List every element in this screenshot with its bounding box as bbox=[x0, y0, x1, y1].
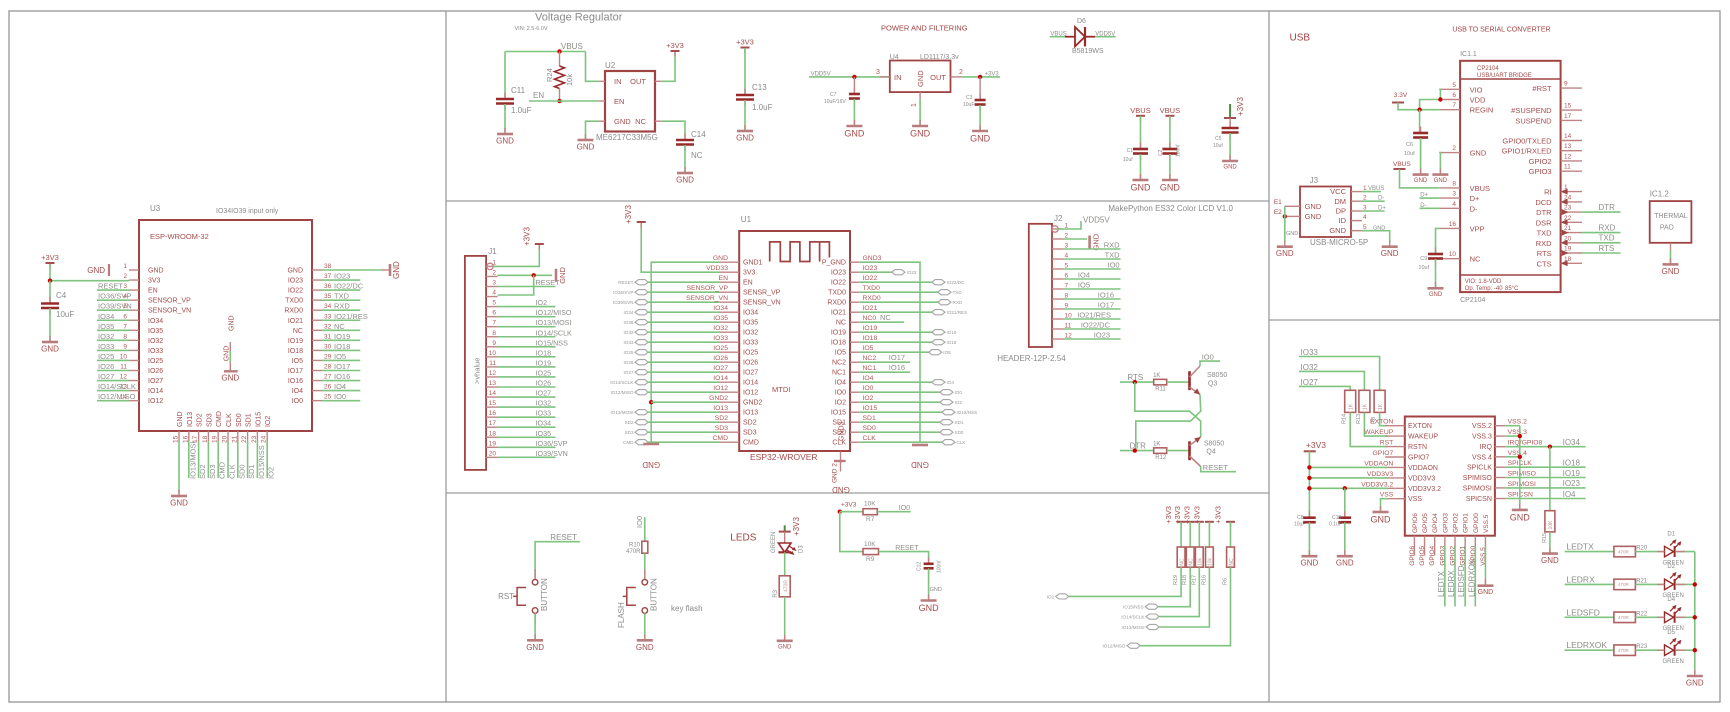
section divider right column bbox=[1268, 11, 1270, 702]
svg-text:SD1: SD1 bbox=[246, 413, 253, 427]
svg-text:C11: C11 bbox=[511, 86, 526, 95]
U3 pin 12 IO27 bbox=[129, 380, 139, 382]
svg-text:LEDSFD: LEDSFD bbox=[1566, 607, 1600, 617]
svg-text:27: 27 bbox=[324, 374, 332, 381]
svg-text:CMD: CMD bbox=[713, 435, 729, 442]
supply +3V3 at J1 bbox=[538, 244, 540, 250]
svg-text:D4: D4 bbox=[1667, 597, 1675, 603]
svg-text:DSR: DSR bbox=[1536, 218, 1552, 227]
svg-text:IO13/MOSI: IO13/MOSI bbox=[611, 410, 634, 415]
J3 pin E1 bbox=[1285, 205, 1300, 207]
wire LEDTX bbox=[1565, 551, 1614, 553]
wire D4 cathode bbox=[1676, 616, 1695, 618]
supply +3V3 bbox=[49, 263, 51, 269]
junction REGIN bbox=[1417, 108, 1421, 112]
supply +3V3 at R6 bbox=[1230, 522, 1232, 528]
svg-text:9: 9 bbox=[123, 343, 127, 350]
wire R17 to IO14/SCLK bbox=[1159, 567, 1199, 616]
wire D+ to pin 3 bbox=[1420, 197, 1440, 199]
wire VDD5V to U4 IN bbox=[809, 76, 890, 78]
svg-text:IO5: IO5 bbox=[835, 350, 846, 357]
U1 pin GND1 bbox=[720, 261, 739, 263]
wire net IO36/SVP bbox=[97, 299, 129, 301]
ground C7 bbox=[853, 120, 855, 126]
J1 pin 7 bbox=[486, 326, 498, 328]
ground U4 bbox=[919, 120, 921, 126]
svg-text:IO0: IO0 bbox=[1108, 261, 1120, 270]
wire net IO13/MOSI bbox=[188, 441, 190, 478]
IC1.1 pin 6 VDD bbox=[1439, 99, 1460, 101]
svg-text:16: 16 bbox=[489, 410, 497, 417]
ground led bus bbox=[1694, 670, 1696, 676]
net flag IO5 (U1 right) bbox=[929, 350, 942, 355]
wire IO5 at J2 bbox=[1063, 288, 1121, 290]
svg-text:FLASH: FLASH bbox=[617, 602, 626, 628]
svg-text:IRQ/GPIO8: IRQ/GPIO8 bbox=[1508, 440, 1543, 447]
svg-text:C7: C7 bbox=[830, 92, 837, 98]
svg-text:GND: GND bbox=[910, 129, 931, 139]
svg-text:10: 10 bbox=[489, 350, 497, 357]
svg-text:GND: GND bbox=[1470, 149, 1487, 158]
svg-text:Q4: Q4 bbox=[1206, 449, 1215, 456]
wire net IO2 bbox=[266, 441, 268, 478]
svg-text:GND: GND bbox=[1160, 183, 1181, 193]
svg-text:GND: GND bbox=[916, 70, 925, 87]
svg-text:1.0uF: 1.0uF bbox=[511, 106, 532, 115]
svg-text:VDDAON: VDDAON bbox=[1408, 465, 1438, 472]
svg-text:IO22: IO22 bbox=[288, 288, 303, 295]
U3 pin38 gnd wire bbox=[322, 269, 382, 271]
svg-text:NC: NC bbox=[1179, 558, 1185, 566]
svg-text:GND 2: GND 2 bbox=[831, 463, 838, 483]
svg-text:R9: R9 bbox=[866, 556, 875, 563]
svg-text:GND: GND bbox=[526, 643, 544, 652]
resistor bbox=[1359, 390, 1370, 412]
wire IO14/SCLK to U1 bbox=[648, 381, 720, 383]
svg-text:10uF: 10uF bbox=[963, 102, 974, 108]
svg-text:SD2: SD2 bbox=[197, 413, 204, 427]
wire IO27 to U1 bbox=[648, 371, 720, 373]
wire NC1/IO16 bbox=[859, 371, 910, 373]
wire net IO18 bbox=[322, 349, 360, 351]
svg-text:GND2: GND2 bbox=[743, 400, 763, 407]
svg-text:IO12/MISO: IO12/MISO bbox=[611, 390, 634, 395]
wire U2 NC to C14 bbox=[661, 121, 685, 139]
transistor Q4 S8050 bbox=[1188, 441, 1191, 460]
wire IO5 bbox=[859, 351, 929, 353]
J1 pin 2 bbox=[486, 275, 498, 277]
wire SD2 to U1 bbox=[648, 421, 720, 423]
svg-text:RXD: RXD bbox=[953, 300, 963, 305]
wire J3 GND to ground bbox=[1362, 231, 1390, 243]
U3 pin 19 CMD bbox=[217, 431, 219, 441]
wire SD0 bbox=[859, 431, 940, 433]
svg-text:EN: EN bbox=[743, 280, 753, 287]
svg-text:TXD: TXD bbox=[1105, 251, 1121, 260]
svg-text:IO12: IO12 bbox=[148, 398, 163, 405]
U3 pin 37 IO23 bbox=[312, 279, 322, 281]
svg-text:NC: NC bbox=[635, 117, 646, 126]
wire net IO26 bbox=[498, 386, 556, 388]
wire R18 to IO15/NSS bbox=[1158, 567, 1190, 607]
svg-text:GND: GND bbox=[229, 315, 236, 331]
svg-text:IO22: IO22 bbox=[863, 275, 878, 282]
J1 pin 17 bbox=[486, 426, 498, 428]
wire C1 to ground bbox=[1140, 154, 1142, 179]
svg-text:GREEN: GREEN bbox=[1663, 659, 1684, 665]
svg-text:USB TO SERIAL CONVERTER: USB TO SERIAL CONVERTER bbox=[1452, 26, 1550, 33]
capacitor bbox=[744, 89, 746, 96]
junction VSS.3 bbox=[1518, 434, 1522, 438]
svg-text:IO19: IO19 bbox=[334, 332, 350, 341]
svg-text:+3V3: +3V3 bbox=[1236, 97, 1245, 116]
IC flash chip block bbox=[1405, 417, 1495, 536]
svg-text:D+: D+ bbox=[1470, 194, 1480, 203]
svg-text:NC: NC bbox=[1470, 255, 1481, 264]
svg-text:D-: D- bbox=[1470, 204, 1478, 213]
wire R15 to ground bbox=[1549, 532, 1551, 553]
svg-text:85°C: 85°C bbox=[1505, 286, 1519, 292]
svg-text:GPIO3: GPIO3 bbox=[1529, 167, 1552, 176]
U1 pin SD2 bbox=[720, 421, 739, 423]
svg-text:6: 6 bbox=[492, 310, 496, 317]
svg-text:LEDRXOK: LEDRXOK bbox=[1467, 558, 1476, 597]
U3 pin 22 SD1 bbox=[247, 431, 249, 441]
flash pin SPICLK bbox=[1495, 466, 1505, 468]
svg-text:IO36/SVP: IO36/SVP bbox=[613, 290, 633, 295]
svg-text:USB-MICRO-5P: USB-MICRO-5P bbox=[1310, 238, 1368, 247]
svg-text:U2: U2 bbox=[605, 61, 616, 70]
svg-text:IO0: IO0 bbox=[955, 390, 963, 395]
svg-text:LEDS: LEDS bbox=[730, 532, 756, 543]
J1 pin 3 bbox=[486, 286, 498, 288]
svg-text:NC: NC bbox=[334, 322, 345, 331]
wire net IO36/SVP bbox=[498, 446, 556, 448]
wire IO15/NSS bbox=[859, 411, 942, 413]
flash pin GPIO7 bbox=[1385, 456, 1405, 458]
wire VBUS to C2 bbox=[1169, 116, 1171, 148]
IC1.1 pin 2 GND bbox=[1439, 152, 1460, 154]
svg-text:VBUS: VBUS bbox=[1470, 184, 1490, 193]
U3 pin 10 IO25 bbox=[129, 359, 139, 361]
wire net SD0 bbox=[237, 441, 239, 478]
svg-text:26: 26 bbox=[324, 384, 332, 391]
svg-text:IO21/RES: IO21/RES bbox=[334, 312, 368, 321]
wire GND3 bus bbox=[859, 262, 920, 443]
supply VBUS bbox=[1169, 116, 1171, 122]
svg-text:GND: GND bbox=[1429, 292, 1443, 298]
wire +3V3 to R6 bbox=[1230, 522, 1232, 547]
svg-text:IRQ: IRQ bbox=[1479, 444, 1492, 451]
ground C2 bbox=[1169, 174, 1171, 180]
U3 pin 8 IO32 bbox=[129, 339, 139, 341]
svg-text:SD0: SD0 bbox=[863, 425, 876, 432]
U1 antenna meander bbox=[770, 242, 830, 262]
junction IRQ pull bbox=[1548, 445, 1552, 449]
J2 pin 8 bbox=[1052, 298, 1063, 300]
svg-text:GND: GND bbox=[177, 411, 184, 427]
svg-text:IO32: IO32 bbox=[148, 338, 163, 345]
ground U2 bbox=[585, 134, 587, 140]
svg-text:CTS: CTS bbox=[1537, 259, 1552, 268]
svg-text:IO35: IO35 bbox=[536, 429, 552, 438]
svg-text:470R: 470R bbox=[626, 549, 641, 555]
svg-text:R10: R10 bbox=[629, 543, 641, 549]
IC1.1 pin 16 VPP bbox=[1439, 227, 1460, 229]
wire IO22/DC bbox=[859, 281, 932, 283]
U1 pin IO12 bbox=[720, 391, 739, 393]
svg-text:IO14/SCLK: IO14/SCLK bbox=[1121, 615, 1145, 620]
svg-text:IO2: IO2 bbox=[267, 467, 276, 479]
resistor bbox=[779, 576, 790, 597]
ground VSS bbox=[1380, 506, 1382, 512]
svg-text:IO12/MISO: IO12/MISO bbox=[536, 308, 572, 317]
net flag SD1 (U1 right) bbox=[940, 420, 953, 425]
wire to C6 bbox=[1419, 110, 1421, 132]
wire LEDRXOK bbox=[1474, 546, 1476, 607]
ground J3 shield bbox=[1284, 241, 1286, 247]
svg-text:IO2: IO2 bbox=[265, 416, 272, 427]
J2 pin1 circle bbox=[1052, 226, 1058, 232]
flash pin GPIO0 bbox=[1474, 536, 1476, 546]
svg-text:IO22/DC: IO22/DC bbox=[1081, 321, 1111, 330]
U1 pin IO14 bbox=[720, 381, 739, 383]
svg-text:1.0uF: 1.0uF bbox=[752, 103, 773, 112]
wire SD3 to U1 bbox=[648, 431, 720, 433]
flash pin VSS.3 bbox=[1495, 435, 1505, 437]
svg-text:GND: GND bbox=[1371, 515, 1392, 525]
J2 pin 2 bbox=[1052, 238, 1063, 240]
wire IO32 bbox=[1299, 371, 1364, 390]
svg-text:IO0: IO0 bbox=[835, 390, 846, 397]
flash pin VSS.4 bbox=[1495, 456, 1505, 458]
svg-text:IO34IO39 input only: IO34IO39 input only bbox=[216, 208, 279, 215]
wire NC2/IO17 bbox=[859, 361, 910, 363]
net flag CMD (U1 left) bbox=[635, 440, 648, 445]
J3 pin 3 DP bbox=[1351, 210, 1362, 212]
wire U3 pin15 gnd bbox=[178, 441, 180, 494]
capacitor bbox=[979, 94, 981, 101]
J2 pin 10 bbox=[1052, 318, 1063, 320]
svg-text:5: 5 bbox=[492, 300, 496, 307]
svg-text:IO16: IO16 bbox=[334, 372, 350, 381]
svg-text:J3: J3 bbox=[1310, 176, 1319, 185]
svg-text:IO26: IO26 bbox=[536, 379, 552, 388]
wire R8 to EXTON bbox=[1380, 412, 1388, 425]
svg-text:NC2: NC2 bbox=[832, 360, 846, 367]
section divider left column bbox=[445, 11, 447, 702]
svg-text:NC1: NC1 bbox=[832, 370, 846, 377]
led D3 GREEN bbox=[784, 532, 786, 543]
svg-text:GND: GND bbox=[676, 176, 694, 185]
svg-text:IO33: IO33 bbox=[624, 340, 634, 345]
svg-text:VIN: 2.5-6.0V: VIN: 2.5-6.0V bbox=[515, 26, 548, 32]
svg-text:17: 17 bbox=[489, 420, 497, 427]
IC1.1 pin 15 #SUSPEND bbox=[1561, 109, 1582, 111]
ground C3 bbox=[979, 125, 981, 131]
wire +3V3 to C13 bbox=[744, 48, 746, 94]
svg-text:IO2: IO2 bbox=[536, 298, 548, 307]
svg-text:8: 8 bbox=[123, 333, 127, 340]
svg-text:TXD: TXD bbox=[334, 292, 350, 301]
svg-text:CMD: CMD bbox=[218, 461, 227, 479]
svg-text:IO25: IO25 bbox=[148, 358, 163, 365]
ground J2 pin2 bbox=[1088, 236, 1091, 249]
svg-text:IO23: IO23 bbox=[907, 270, 917, 275]
U4 pin2 stub bbox=[951, 76, 962, 78]
net flag IO36/SVP (U1 left) bbox=[635, 290, 648, 295]
svg-text:13: 13 bbox=[1564, 143, 1572, 150]
svg-text:36: 36 bbox=[324, 283, 332, 290]
svg-text:NC1: NC1 bbox=[863, 365, 877, 372]
svg-text:IO23: IO23 bbox=[1563, 479, 1581, 488]
junction C3 tap bbox=[978, 75, 982, 79]
junction VDD bbox=[1438, 97, 1442, 101]
wire +3V3 to R19 bbox=[1180, 522, 1182, 547]
svg-text:GND: GND bbox=[223, 346, 230, 362]
svg-text:IO27: IO27 bbox=[624, 370, 634, 375]
wire D1 cathode bbox=[1676, 551, 1695, 553]
svg-text:5: 5 bbox=[1452, 82, 1456, 89]
svg-text:GPIO0/TXLED: GPIO0/TXLED bbox=[1502, 137, 1552, 146]
svg-text:11: 11 bbox=[489, 360, 496, 367]
IC1.2 THERMAL PAD bbox=[1650, 201, 1692, 243]
svg-text:IO14/SCLK: IO14/SCLK bbox=[536, 328, 573, 337]
svg-text:IO12: IO12 bbox=[743, 390, 758, 397]
svg-text:IO19: IO19 bbox=[536, 358, 552, 367]
svg-text:IO14/SCLK: IO14/SCLK bbox=[98, 382, 136, 391]
svg-text:GND: GND bbox=[496, 137, 514, 146]
svg-text:WAKEUP: WAKEUP bbox=[1408, 434, 1438, 441]
svg-text:SENSR_VP: SENSR_VP bbox=[743, 290, 781, 297]
wire +3V3 down to R9 bbox=[840, 512, 863, 552]
svg-text:IO23: IO23 bbox=[831, 270, 846, 277]
J1 pin 19 bbox=[486, 446, 498, 448]
ground VSS.5 bbox=[1484, 580, 1486, 586]
wire 3.3V to REGIN/VDD/VIO bbox=[1398, 103, 1439, 110]
svg-text:GND: GND bbox=[1305, 202, 1322, 211]
wire C3 to ground bbox=[979, 105, 981, 130]
U1 pin P_GND bbox=[850, 261, 859, 263]
svg-text:GND: GND bbox=[844, 129, 865, 139]
svg-text:25: 25 bbox=[324, 394, 332, 401]
capacitor bbox=[853, 88, 855, 95]
junction J1 gnd bbox=[532, 273, 536, 277]
junction DTR bbox=[1133, 448, 1137, 452]
svg-text:IO39/SVN: IO39/SVN bbox=[98, 302, 132, 311]
wire R16 to IO13/MOSI bbox=[1159, 567, 1209, 627]
J1 pin 9 bbox=[486, 346, 498, 348]
wire IO4 at J2 bbox=[1063, 278, 1121, 280]
wire TXD out bbox=[1582, 242, 1621, 244]
svg-text:GND: GND bbox=[636, 643, 654, 652]
svg-text:470R: 470R bbox=[1618, 582, 1630, 587]
svg-text:IO0: IO0 bbox=[292, 398, 303, 405]
IC1.1 pin 4 D- bbox=[1439, 207, 1460, 209]
svg-text:IO15/NSS: IO15/NSS bbox=[1123, 605, 1144, 610]
svg-text:VBUS: VBUS bbox=[1393, 161, 1411, 168]
junction VDDAON bbox=[1307, 465, 1311, 469]
wire IRQ pull-down bbox=[1549, 447, 1551, 511]
svg-text:GND: GND bbox=[1223, 165, 1237, 171]
svg-text:VSS.3: VSS.3 bbox=[1508, 429, 1527, 436]
svg-text:GND: GND bbox=[170, 499, 188, 508]
J1 pin 16 bbox=[486, 416, 498, 418]
wire to C4 bbox=[49, 281, 51, 303]
svg-text:19: 19 bbox=[489, 440, 497, 447]
svg-text:GND: GND bbox=[1329, 226, 1346, 235]
U3 pin 7 IO35 bbox=[129, 329, 139, 331]
svg-text:IO33: IO33 bbox=[98, 342, 114, 351]
supply +3V3 at D3 bbox=[784, 525, 786, 531]
svg-text:IO2: IO2 bbox=[955, 400, 963, 405]
U3 pin 26 IO4 bbox=[312, 390, 322, 392]
wire net SD2 bbox=[198, 441, 200, 478]
J1 pin 5 bbox=[486, 306, 498, 308]
svg-text:J1: J1 bbox=[488, 247, 497, 256]
svg-text:7: 7 bbox=[492, 320, 496, 327]
wire R23 to D5 bbox=[1635, 649, 1664, 651]
U1 pin IO5 bbox=[850, 351, 859, 353]
wire D- at J3 bbox=[1362, 200, 1385, 202]
flash pin GPIO4 bbox=[1434, 536, 1436, 546]
svg-text:R23: R23 bbox=[1636, 644, 1648, 650]
svg-text:IO18: IO18 bbox=[288, 348, 303, 355]
svg-text:VBUS: VBUS bbox=[1368, 186, 1384, 192]
wire C6 to ground bbox=[1420, 138, 1422, 173]
svg-text:Q3: Q3 bbox=[1208, 381, 1217, 388]
wire net IO33 bbox=[498, 416, 556, 418]
svg-text:SD1: SD1 bbox=[955, 420, 964, 425]
U1 pin IO21 bbox=[850, 311, 859, 313]
svg-text:IO5: IO5 bbox=[943, 350, 951, 355]
svg-text:31: 31 bbox=[324, 333, 332, 340]
svg-text:HEADER-12P-2.54: HEADER-12P-2.54 bbox=[997, 354, 1066, 363]
svg-text:IO14: IO14 bbox=[743, 380, 758, 387]
svg-text:3.3V: 3.3V bbox=[1394, 92, 1408, 99]
svg-text:IO32: IO32 bbox=[536, 399, 552, 408]
svg-text:D6: D6 bbox=[1077, 18, 1086, 25]
svg-text:GPIO2: GPIO2 bbox=[1529, 157, 1552, 166]
capacitor bbox=[928, 557, 930, 564]
svg-text:VBUS: VBUS bbox=[1050, 32, 1066, 38]
wire LEDRX bbox=[1454, 546, 1456, 607]
capacitor bbox=[1420, 127, 1422, 134]
net flag SD0 (U1 right) bbox=[940, 430, 953, 435]
svg-text:D1: D1 bbox=[1667, 531, 1675, 537]
wire net IO32 bbox=[498, 406, 556, 408]
ground R3 bbox=[784, 635, 786, 641]
wire DTR out bbox=[1582, 211, 1621, 213]
svg-text:IO34: IO34 bbox=[743, 310, 758, 317]
wire +3V3 rail to VDD pins bbox=[1308, 451, 1310, 516]
svg-text:NC: NC bbox=[880, 313, 891, 322]
svg-text:NC: NC bbox=[836, 320, 846, 327]
svg-text:VCC: VCC bbox=[1330, 187, 1346, 196]
J2 pin 1 bbox=[1052, 228, 1063, 230]
junction RTS bbox=[1133, 380, 1137, 384]
supply +3V3 at R19 bbox=[1180, 522, 1182, 528]
svg-text:1: 1 bbox=[123, 263, 127, 270]
wire R12 to Q4 base bbox=[1167, 450, 1189, 452]
svg-text:IO26: IO26 bbox=[148, 368, 163, 375]
IC1.2 pad pin bbox=[1670, 243, 1672, 250]
svg-text:35: 35 bbox=[324, 293, 332, 300]
svg-text:VIO: 1.8-VDD: VIO: 1.8-VDD bbox=[1465, 279, 1502, 285]
svg-text:GND: GND bbox=[1414, 178, 1428, 184]
wire IO35 to U1 bbox=[648, 321, 720, 323]
net flag IO15/NSS (U1 right) bbox=[942, 410, 955, 415]
